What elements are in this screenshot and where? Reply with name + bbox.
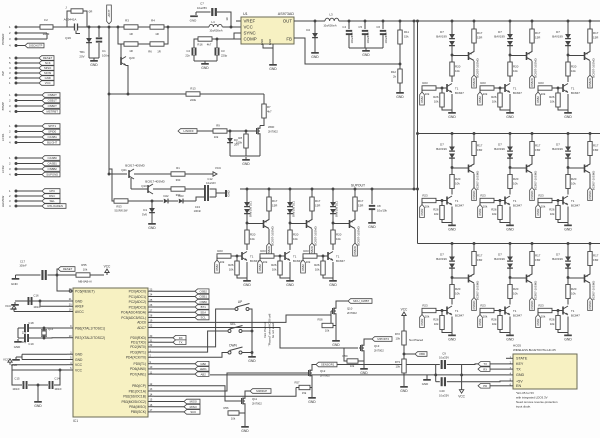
net flag GND [18,77,40,79]
resistor R72 10k [403,318,405,331]
svg-text:L3: L3 [329,13,333,17]
svg-text:PD5(T1): PD5(T1) [134,362,146,366]
svg-text:Q10: Q10 [347,307,353,311]
net flag MPODT2 [364,339,372,343]
svg-text:Need remove reverse-protection: Need remove reverse-protection [516,400,558,404]
svg-text:C5: C5 [358,25,362,29]
svg-text:GND: GND [248,359,256,363]
svg-text:GND: GND [242,162,250,166]
svg-text:PC3(ADC3): PC3(ADC3) [129,305,146,309]
net flag MSTRBT [18,111,43,113]
crystal Q14 [34,327,44,329]
svg-text:C12: C12 [207,177,213,181]
svg-text:3R03: 3R03 [43,32,50,36]
wire: OUT to top bus [294,20,325,22]
net flag RX [154,337,173,339]
svg-text:OASB0: OASB0 [48,156,58,160]
net flag DISCOTP [18,45,26,47]
svg-text:R8: R8 [238,136,242,140]
wire PD2 to UP button [154,309,234,347]
ground [89,57,99,59]
net flag OSB2T [18,94,43,96]
svg-text:GND: GND [34,404,42,408]
wire to U1 VCC [222,26,241,28]
svg-text:DWN: DWN [229,344,237,348]
wire: battery input main line [18,26,41,28]
net flag MISO [154,406,184,408]
wire [53,26,73,28]
net flag SPID0 [18,131,43,133]
net flag RXLOADEN [18,205,43,207]
capacitor C12 10u/16V [204,185,206,193]
svg-text:GND: GND [400,389,408,393]
svg-text:GND: GND [308,400,316,404]
svg-text:1R: 1R [157,50,161,54]
supply VCC [403,316,405,319]
capacitor C3 220p [216,39,218,48]
LED driver cell row2 col3 (D6, R31 15R, R34 10k, T7 BC847) [536,132,599,231]
IC U1 AS973AD (regulator) [241,17,294,44]
svg-text:R6: R6 [148,50,152,54]
svg-text:Q11: Q11 [252,397,258,401]
resistor R9 10k [197,130,214,132]
svg-text:R56: R56 [224,406,229,410]
svg-text:2N7002: 2N7002 [320,374,330,378]
ground [314,50,316,52]
svg-text:DISCHOTP: DISCHOTP [29,44,43,48]
svg-text:PD1(TXD): PD1(TXD) [131,341,146,345]
svg-text:GND: GND [148,226,156,230]
svg-text:VCC: VCC [244,25,253,30]
svg-text:Q21: Q21 [121,168,127,172]
svg-text:15k: 15k [404,35,409,39]
wire (HC05 GND long line) [210,374,506,376]
fuse F2 [40,25,53,29]
svg-text:VCC: VCC [75,368,83,372]
svg-text:OSB2: OSB2 [199,289,207,293]
ground [151,221,153,223]
svg-text:PD: PD [483,384,487,388]
LED driver cell row2 col1 (D4, R29 15R, R32 10k, T5 BC847) [420,132,483,231]
svg-text:R13: R13 [190,87,196,91]
capacitor C14 100nF [49,381,51,389]
net flag OSB1 [154,296,195,298]
svg-text:VCC: VCC [75,363,83,367]
svg-text:R53: R53 [116,205,122,209]
wire: buttons to ground [250,309,252,354]
svg-text:OUT: OUT [283,19,293,24]
svg-text:PB4(MISO): PB4(MISO) [129,405,146,409]
wire to RESET pin [57,275,67,291]
LED driver cell row3 col2 (D31, R42 15R, R45 10k, T11 BC847) [478,242,541,341]
net flag SDA [154,311,195,313]
wire from battery rail [108,169,110,174]
svg-text:C8: C8 [377,204,381,208]
IC1 ATMEGA8 (MEGA8-AI) [73,288,148,417]
net flag AB2 [154,373,195,375]
svg-text:1R: 1R [155,32,159,36]
svg-text:R1: R1 [176,166,180,170]
pushbutton SEL [228,330,231,333]
svg-text:GND: GND [201,66,209,70]
svg-text:10k: 10k [231,417,236,421]
capacitor C17 100nF [16,274,41,276]
svg-text:GND: GND [11,282,19,286]
svg-text:MCU_KWBT: MCU_KWBT [353,299,369,303]
svg-text:GND: GND [422,382,428,386]
wire: main vertical bus x109 [108,27,110,169]
supply VCC (down arrow) [461,382,463,390]
svg-text:22n: 22n [185,54,190,58]
resistor R59 10k [347,359,358,363]
net flag RX (to HC05) [478,367,490,372]
wire +5V branch [462,380,506,383]
svg-text:F2: F2 [44,18,48,22]
svg-text:OSB1T: OSB1T [48,99,57,103]
svg-text:WDF: WDF [268,125,275,129]
svg-text:2N7002: 2N7002 [252,402,262,406]
svg-text:GND: GND [190,19,198,23]
svg-text:C16: C16 [33,294,39,298]
LED driver cell mid col1 (D11, R60 15R, R63 10k, T13 BC847) [215,188,278,287]
wire ADC6 to Q10 gate [154,311,331,322]
transistor Q12 2N7002 [308,370,310,376]
svg-text:D23: D23 [179,194,184,198]
inductor L3 10u/600mA [325,18,339,21]
svg-text:100nF: 100nF [194,209,202,213]
jumper J bypass [67,11,71,27]
svg-text:VCC: VCC [104,265,111,269]
svg-text:100u/6V3: 100u/6V3 [351,32,354,43]
svg-text:100k: 100k [236,141,243,145]
transistor Q11 2N7002 [241,398,243,404]
svg-text:R9: R9 [216,124,220,128]
wire + ground [363,354,365,367]
svg-text:PC2(ADC2): PC2(ADC2) [129,300,146,304]
svg-text:PD6(AIN0): PD6(AIN0) [130,367,146,371]
transistor Q10 2N7002 [332,308,334,314]
svg-text:Q19: Q19 [65,36,71,40]
net flag OASB0 [18,157,43,159]
svg-text:PB5(SCK): PB5(SCK) [131,410,146,414]
svg-text:BC817-40SMD: BC817-40SMD [145,180,164,184]
svg-text:LED/SW: LED/SW [1,196,5,208]
svg-text:GND: GND [368,225,376,229]
ground [15,275,17,278]
svg-text:GND: GND [269,67,277,71]
svg-text:R3: R3 [125,19,129,23]
capacitor C19 22p [18,337,24,339]
wire: feedback line R13 [108,93,111,96]
pushbutton UP [235,308,238,311]
svg-text:SDA: SDA [200,310,206,314]
wire: row2 bus [418,133,600,135]
svg-text:D22: D22 [164,194,169,198]
svg-text:STATE: STATE [516,357,528,361]
wire PD3 to SEL button [154,331,227,352]
net flag +BATT (vertical) [108,26,111,29]
LED driver cell mid col3 (D13, R62 15R, R65 10k, T15 BC847) [301,188,364,287]
ground [371,220,373,222]
svg-text:SYNC: SYNC [244,31,256,36]
svg-text:BC817-40SMD: BC817-40SMD [125,164,144,168]
svg-text:C19: C19 [28,342,34,346]
svg-text:R57: R57 [295,381,300,385]
wire: row3 bus [418,243,600,245]
resistor R16 4k7 (COMP) [212,38,241,40]
resistor R57 15k [299,385,310,389]
ground [194,60,217,62]
svg-text:GND: GND [360,371,368,375]
svg-text:R59: R59 [343,354,348,358]
svg-text:VREF: VREF [244,19,256,24]
svg-text:PB3(MOSI/OC2): PB3(MOSI/OC2) [121,400,146,404]
capacitor C5 [364,21,366,29]
capacitor C8 10u/10V [371,188,374,191]
svg-text:GND: GND [90,63,98,67]
net flag SEL [18,200,43,202]
svg-text:MOSI: MOSI [44,71,51,75]
svg-text:R7: R7 [267,105,271,109]
resistor R7 4k7 [263,94,265,104]
resistor R4 1R [138,26,150,28]
svg-text:Q13: Q13 [374,344,380,348]
svg-text:C2: C2 [186,49,190,53]
resistor R55 10k [57,274,76,276]
svg-text:UP: UP [238,300,242,304]
svg-text:100nF: 100nF [19,264,27,268]
svg-text:Q10: Q10 [141,184,147,188]
svg-text:OSB1: OSB1 [199,295,207,299]
svg-text:HC05: HC05 [513,344,521,348]
svg-text:10u/25V: 10u/25V [439,356,449,360]
net flag OSB2 [154,290,195,292]
net flag MISO [18,67,40,69]
svg-text:D1: D1 [143,208,147,212]
svg-text:39: 39 [225,17,229,20]
svg-text:C20: C20 [439,389,445,393]
svg-text:GND: GND [362,53,370,57]
svg-text:10u/600mA: 10u/600mA [209,29,223,33]
svg-text:ISP: ISP [1,71,5,76]
wire AVCC + VCC [14,311,67,313]
net flag RESET [18,57,40,59]
ground [272,62,274,64]
diode D22 [164,199,168,204]
svg-text:BLIGHT: BLIGHT [47,141,57,145]
svg-text:TR1: TR1 [79,50,85,54]
svg-text:D2: D2 [306,28,310,32]
svg-text:Q12: Q12 [320,369,326,373]
LED driver cell row1 col3 (D9, R19 15R, R22 10k, T6 BC847, R25/R28 10k, BC807) [536,20,599,119]
svg-text:TX: TX [179,340,183,344]
capacitor C4 [348,21,350,29]
svg-text:M283UP: M283UP [256,389,267,393]
svg-text:VCC: VCC [458,395,465,399]
svg-text:R55: R55 [81,263,87,267]
resistor R3 1R [109,26,124,28]
svg-text:100u/6V3: 100u/6V3 [385,32,388,43]
wire PB0 to Q11 gate [154,386,240,401]
svg-text:OSB0: OSB0 [199,300,207,304]
svg-text:C14: C14 [54,377,60,381]
svg-text:4k7: 4k7 [267,110,272,114]
wire SYNC stub [234,33,241,39]
svg-text:C4: C4 [342,25,346,29]
svg-text:PB0(ICP): PB0(ICP) [132,384,146,388]
svg-text:0R: 0R [89,9,93,13]
svg-text:SCK: SCK [190,410,196,414]
svg-text:10u/10k: 10u/10k [377,209,388,213]
svg-text:AC9441A: AC9441A [64,18,77,22]
pushbutton DWN [228,351,231,354]
wire GND pins [22,353,67,355]
svg-text:SPID0: SPID0 [48,130,57,134]
wire: top bus [339,20,600,22]
LED driver cell row3 col3 (D33, R43 15R, R46 10k, T12 BC847) [536,242,599,341]
wire PB1 to Q12 gate [154,373,307,391]
svg-text:SPIT1: SPIT1 [48,124,56,128]
svg-text:KBD: KBD [419,352,425,356]
svg-text:SCL: SCL [200,316,206,320]
resistor R5 1R [118,27,124,44]
svg-text:PD3(INT1): PD3(INT1) [130,350,146,354]
svg-text:MPODT2: MPODT2 [377,337,389,341]
wire to XTAL pins [44,327,67,329]
ground [349,47,383,49]
svg-text:2N7002: 2N7002 [347,311,357,315]
svg-text:100nF: 100nF [54,387,62,391]
svg-text:*HC-05 for 5V: *HC-05 for 5V [516,391,534,395]
svg-text:RESET: RESET [43,56,53,60]
net flag VCC [18,82,40,84]
net flag LINOFF [178,129,197,134]
svg-text:10k: 10k [214,135,219,139]
svg-text:10u/25V: 10u/25V [197,6,207,10]
net flag SUPGND [18,174,43,176]
svg-text:LINOFF: LINOFF [184,129,195,133]
svg-text:LCD1: LCD1 [1,133,5,141]
svg-text:VCC: VCC [5,304,11,308]
svg-text:100nF: 100nF [12,387,20,391]
zener D3 20V [229,130,232,133]
diode D23 [179,199,183,204]
svg-text:GND: GND [227,190,231,196]
svg-text:GND: GND [268,39,272,45]
svg-text:22p: 22p [22,331,27,335]
resistor R1 360 [171,172,185,176]
ground [399,90,401,92]
svg-text:PB7(XTAL2/TOSC2): PB7(XTAL2/TOSC2) [75,336,105,340]
svg-text:POWER: POWER [1,33,5,45]
transistor Q9 2N7002 (WDF) [256,128,258,134]
svg-text:220k: 220k [190,98,197,102]
resistor R8 100k [245,130,248,133]
svg-text:RESET: RESET [63,267,73,271]
svg-text:R12: R12 [391,70,397,74]
wire VCC pins [12,364,67,366]
svg-text:22p: 22p [22,340,27,344]
net flag OASB1 [18,136,43,138]
svg-text:TX: TX [516,367,521,371]
LED driver cell row3 col1 (D30, R41 15R, R44 10k, T10 BC847) [420,242,483,341]
svg-text:PD0(RXD): PD0(RXD) [130,336,146,340]
svg-text:OSBB2: OSBB2 [48,167,58,171]
svg-text:PD2(INT0): PD2(INT0) [130,345,146,349]
svg-text:C18: C18 [28,321,34,325]
zener TR1 20V [88,26,91,29]
svg-text:20V: 20V [79,55,84,59]
wire + ground [244,407,246,425]
svg-text:10k: 10k [350,364,355,368]
net flag MOSI [154,401,184,403]
svg-text:MB-8AB-AI: MB-8AB-AI [78,280,92,284]
resistor R12 2k [399,64,401,69]
svg-text:GND: GND [75,353,83,357]
wire ADC7 to Q13 gate [154,328,358,349]
resistor R56 10k [228,411,239,415]
svg-text:Not Placed: Not Placed [409,338,424,342]
svg-text:be not used.: be not used. [271,322,275,338]
svg-text:GND: GND [75,358,83,362]
transistor Q20 [120,44,122,57]
ground flag rotated [216,192,226,194]
svg-text:RXLOADEN: RXLOADEN [48,204,63,208]
svg-text:with integrated LDO3.3V: with integrated LDO3.3V [516,396,548,400]
transistor Q21 BC817-40SMD [109,173,127,175]
svg-text:100n: 100n [102,54,109,58]
svg-text:15k: 15k [302,391,307,395]
inductor L4 10u/600mA [209,24,222,27]
net flag OASB1 [18,163,43,165]
resistor R53 510R/0.5W [114,199,128,203]
svg-text:GND: GND [241,429,249,433]
svg-text:GND: GND [396,95,404,99]
svg-text:KEY: KEY [516,362,524,366]
wire PB2 to R57 [154,388,296,397]
net flag OSB1T [18,100,43,102]
svg-text:PC4(ADC4/SDA): PC4(ADC4/SDA) [121,311,146,315]
svg-text:LED1: LED1 [200,367,207,371]
net flag SPIT1 [18,125,43,127]
svg-text:C15: C15 [14,377,20,381]
svg-text:AS973AD: AS973AD [278,12,295,16]
svg-text:ADC6: ADC6 [137,321,146,325]
svg-text:4k7: 4k7 [207,43,212,47]
capacitor C15 100nF [12,370,22,385]
svg-text:PD4(XCK/T0): PD4(XCK/T0) [126,356,146,360]
svg-text:GND: GND [45,76,51,80]
svg-text:510R/0.5W: 510R/0.5W [115,209,129,213]
svg-text:GND: GND [311,55,319,59]
svg-text:SUPOUT: SUPOUT [351,184,365,188]
net flag BT1 [154,306,195,308]
svg-text:SUPGND: SUPGND [46,173,58,177]
svg-text:VCC: VCC [215,166,222,170]
svg-text:C6: C6 [376,25,380,29]
svg-text:ADC7: ADC7 [137,326,146,330]
svg-text:R73: R73 [395,360,401,364]
resistor R11 15k (FB divider) [399,21,401,30]
wire to inductor [164,26,209,28]
net flag LED1 [154,368,195,370]
crystal circuit: C18 22p [18,327,24,329]
resistor R73 10k [402,359,406,373]
svg-text:VCC: VCC [3,358,9,362]
wire AREF [40,301,67,306]
svg-text:C7: C7 [200,2,204,6]
svg-text:PC1(ADC1): PC1(ADC1) [129,295,146,299]
